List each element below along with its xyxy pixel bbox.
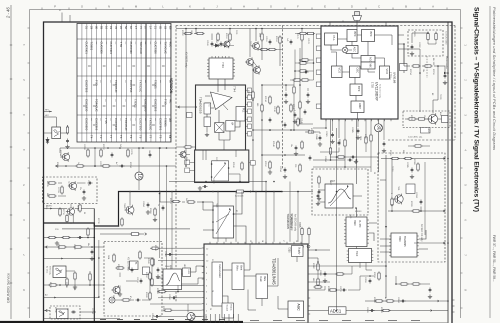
ground r2806 — [318, 272, 327, 283]
module wiring — [205, 79, 240, 150]
svg-text:C2510: C2510 — [168, 294, 170, 300]
svg-text:R2716: R2716 — [62, 209, 64, 215]
resistor R2508 — [157, 290, 166, 292]
svg-text:R2301: R2301 — [389, 150, 391, 156]
tuner type label 1701 UV9168 — [389, 72, 397, 83]
label bandwidth — [100, 233, 147, 236]
svg-text:for CUC: for CUC — [46, 266, 48, 274]
wire tuner IF down — [356, 119, 358, 184]
svg-text:—: — — [124, 42, 128, 45]
wire mid vertical 2 — [261, 85, 263, 192]
resistor R2722 — [100, 148, 102, 157]
svg-text:—: — — [158, 42, 162, 45]
transistor T2752 — [66, 207, 75, 217]
transistor T2173 — [179, 150, 187, 158]
wire AGC row — [405, 118, 442, 120]
label filter — [330, 181, 362, 213]
svg-text:AMP: AMP — [358, 103, 362, 109]
svg-text:C2123: C2123 — [307, 38, 309, 44]
wire under tuner v2 — [382, 119, 386, 153]
label 7230 — [288, 247, 291, 253]
svg-text:R2620: R2620 — [145, 292, 147, 298]
svg-text:R2416: R2416 — [149, 208, 151, 214]
resistor R2828 — [381, 309, 390, 311]
resistor R2605 — [139, 250, 141, 259]
svg-text:T2220: T2220 — [439, 94, 441, 99]
svg-text:18k: 18k — [422, 69, 424, 72]
wire pin drop b — [225, 238, 227, 242]
svg-text:CUC7350: CUC7350 — [154, 42, 158, 55]
resistor R2616 — [121, 299, 130, 301]
svg-text:CH: CH — [169, 26, 172, 30]
dashed boundary tuner section — [176, 26, 455, 303]
capacitor C2136 — [269, 117, 272, 122]
svg-text:82: 82 — [235, 210, 237, 212]
svg-text:G: G — [270, 5, 272, 9]
svg-text:CUC: CUC — [169, 42, 172, 47]
svg-text:T2310: T2310 — [391, 166, 393, 171]
svg-text:C2305: C2305 — [406, 162, 408, 168]
resistor R2841 — [318, 175, 320, 184]
svg-text:34: 34 — [188, 314, 194, 320]
demodulator box — [212, 262, 223, 306]
resistor R2132 — [261, 103, 263, 112]
wire v 206 — [205, 150, 207, 160]
resistor R2754 — [47, 236, 56, 238]
capacitor C2146 — [304, 109, 307, 114]
module pin labels right — [246, 88, 252, 136]
svg-text:2121: 2121 — [215, 157, 217, 161]
wire bus386 top — [380, 179, 386, 181]
resistor R2148 — [277, 140, 279, 149]
svg-text:Video: Video — [236, 265, 238, 272]
capacitor C2706 — [66, 138, 69, 143]
svg-text:C2738: C2738 — [65, 282, 67, 288]
label for CUC only — [46, 266, 51, 275]
capacitor C2766 — [90, 246, 94, 261]
svg-text:R2742: R2742 — [54, 307, 56, 313]
tuner type label 1702 UV1216DXP — [371, 82, 382, 101]
sound switch box 7280 — [212, 206, 234, 238]
TDA8361 pins left — [202, 248, 209, 319]
wire saw feed 1 — [166, 244, 168, 269]
svg-text:37: 37 — [144, 26, 148, 29]
wire pin drop d — [273, 191, 275, 242]
resistor R2742 — [47, 182, 56, 184]
svg-text:220: 220 — [294, 164, 296, 167]
bus inline resistor — [235, 190, 252, 198]
wire to pin col 1 — [255, 191, 257, 244]
svg-text:CUC6300: CUC6300 — [99, 42, 103, 55]
svg-text:R2134: R2134 — [264, 96, 266, 102]
resistor R2430 — [301, 227, 303, 236]
svg-text:R2130: R2130 — [247, 90, 249, 96]
resistor R2410 — [171, 200, 180, 202]
wire ic right r6 — [310, 281, 330, 283]
svg-text:PLL: PLL — [332, 36, 336, 42]
socket 2615 — [109, 297, 115, 303]
svg-text:Signal-Chassis – TV-Signalelek: Signal-Chassis – TV-Signalelektronik / T… — [473, 7, 480, 212]
svg-text:16: 16 — [136, 173, 142, 179]
svg-text:—: — — [99, 80, 103, 83]
svg-text:56: 56 — [83, 212, 85, 214]
svg-text:4n7: 4n7 — [115, 162, 117, 165]
label TDA8395 for SECAM only — [290, 214, 297, 232]
film edge line left — [10, 5, 12, 319]
tuner BPF1 box — [347, 30, 357, 42]
IC 7744 prescaler — [207, 56, 235, 79]
TDA8361 pins top — [210, 242, 301, 244]
svg-text:R2736: R2736 — [49, 282, 51, 288]
capacitor C2826 — [369, 309, 374, 312]
svg-text:TXT/CUC: TXT/CUC — [163, 42, 167, 54]
capacitor C2810 — [341, 289, 346, 292]
svg-text:—: — — [144, 118, 148, 121]
svg-text:—: — — [144, 80, 148, 83]
svg-text:19: 19 — [109, 26, 113, 29]
svg-text:680: 680 — [46, 193, 48, 196]
svg-text:C2222: C2222 — [99, 161, 101, 167]
svg-text:TOP/CUC: TOP/CUC — [139, 42, 143, 55]
IF bus continuation — [281, 191, 313, 193]
svg-text:2836: 2836 — [359, 136, 361, 140]
resistor R2121 — [301, 29, 303, 42]
bottom cut marks — [100, 320, 420, 321]
resistor R2763 — [74, 271, 76, 280]
svg-text:T6: T6 — [119, 135, 123, 139]
svg-text:N: N — [108, 5, 110, 9]
wire row 297 — [44, 294, 99, 299]
svg-text:1n: 1n — [66, 308, 68, 310]
resistor R2142 — [290, 103, 292, 112]
wire h 146 — [313, 156, 345, 161]
resistor R2802 — [317, 262, 319, 271]
svg-text:BPF: BPF — [369, 32, 373, 37]
peak white box — [256, 274, 268, 299]
dashed SEC-DK region box — [378, 153, 445, 262]
tuner IF BPF box — [350, 84, 362, 96]
resistor R2412 — [186, 201, 195, 203]
version table — [77, 24, 172, 143]
page number 2-46 (rotated) — [6, 7, 11, 19]
svg-text:74: 74 — [139, 26, 143, 29]
resistor R2720 — [87, 148, 89, 157]
svg-text:CUC7303: CUC7303 — [153, 99, 157, 112]
capacitor C2522 — [157, 267, 160, 272]
resistor R2422 — [121, 217, 123, 226]
filter pins — [316, 190, 362, 206]
resistor R2144 — [297, 117, 299, 126]
capacitor C2510 — [171, 296, 176, 299]
svg-text:R2828: R2828 — [380, 307, 382, 313]
svg-text:10n: 10n — [290, 144, 292, 147]
label KV9570 mod — [127, 257, 129, 272]
resistor R2504 — [150, 247, 159, 249]
wire ic right r3 — [310, 286, 325, 290]
svg-text:65: 65 — [158, 26, 162, 29]
svg-text:CUC6300: CUC6300 — [84, 118, 88, 131]
svg-text:C2162: C2162 — [212, 178, 214, 184]
svg-text:R2224: R2224 — [129, 162, 131, 168]
svg-text:13: 13 — [249, 240, 251, 242]
svg-text:93: 93 — [99, 26, 103, 29]
wire pin drop c — [235, 191, 237, 242]
svg-text:T 55: T 55 — [119, 42, 123, 48]
box BM decoupling — [400, 64, 408, 71]
svg-text:—: — — [114, 99, 118, 102]
resistor R2604 — [113, 253, 115, 262]
resistor R2770 — [48, 284, 57, 286]
wire mid h1 — [253, 129, 310, 131]
antenna socket — [353, 12, 362, 27]
resistor R2301 — [390, 157, 399, 159]
svg-text:R2907: R2907 — [364, 134, 366, 140]
svg-text:150: 150 — [190, 30, 192, 33]
capacitor C2776 — [71, 311, 76, 314]
resistor R2903 — [344, 119, 346, 148]
wires to 7650 — [380, 230, 428, 252]
svg-text:2616: 2616 — [112, 295, 114, 299]
wire pin drop e — [289, 182, 291, 242]
capacitor C2150 — [295, 145, 298, 150]
svg-text:470: 470 — [59, 155, 61, 158]
right col row d — [295, 70, 314, 72]
resistor R2744 — [47, 195, 56, 197]
svg-text:tuner AGC adj.: tuner AGC adj. — [408, 136, 423, 139]
svg-text:AGC: AGC — [427, 129, 430, 134]
svg-text:VCO: VCO — [385, 69, 389, 75]
wire ic right r2 — [310, 258, 318, 262]
svg-text:7230: 7230 — [288, 247, 291, 253]
svg-text:R2606: R2606 — [117, 264, 119, 270]
svg-text:VCO: VCO — [338, 68, 342, 74]
mixer X1 — [215, 123, 224, 133]
wire mid h3 — [261, 84, 294, 86]
capacitor C2612 — [140, 278, 143, 283]
svg-text:OSC: OSC — [356, 68, 360, 74]
svg-text:T3: T3 — [129, 135, 133, 139]
svg-text:R2201: R2201 — [413, 31, 415, 37]
capacitor C2736 — [119, 165, 124, 168]
resistor R2105 — [217, 32, 219, 41]
dashed small box bl — [50, 306, 80, 319]
wire tuning — [404, 44, 445, 67]
dashed SECAM filter box — [312, 169, 368, 215]
bus junction dots — [447, 72, 449, 302]
resistor R2705 — [66, 125, 68, 134]
module lower pin labels — [185, 160, 255, 173]
tuner AGC2 box — [361, 56, 375, 63]
svg-text:UV9168: UV9168 — [393, 72, 397, 83]
svg-text:T4: T4 — [89, 135, 93, 139]
svg-text:21: 21 — [154, 26, 158, 29]
svg-text:K3953: K3953 — [355, 211, 362, 213]
label 7205 — [298, 222, 301, 228]
IC 7410 decoder — [347, 249, 374, 263]
svg-text:22n: 22n — [79, 187, 81, 190]
module lower wires — [195, 150, 240, 183]
wire row 285 — [44, 284, 105, 286]
wire row 247 — [44, 246, 105, 249]
wire pin drop f — [297, 191, 299, 242]
svg-text:AGC: AGC — [297, 304, 301, 312]
svg-text:UFO: UFO — [183, 264, 185, 269]
resistor R2524 — [151, 277, 153, 286]
svg-text:TDA6802N5: TDA6802N5 — [286, 214, 290, 230]
wire row 237 — [44, 237, 96, 239]
svg-text:C2414: C2414 — [142, 201, 144, 207]
svg-text:CUC6330: CUC6330 — [84, 99, 88, 112]
wire r290 — [325, 289, 360, 291]
svg-text:E: E — [324, 5, 326, 9]
svg-text:—: — — [153, 118, 157, 121]
resistor R2233 — [417, 118, 426, 120]
option label — [445, 31, 448, 69]
wire top feed — [176, 28, 321, 30]
svg-text:R2306: R2306 — [413, 159, 415, 165]
resistor R2620 — [149, 291, 151, 300]
svg-text:C2810: C2810 — [339, 286, 341, 292]
svg-text:R2705: R2705 — [46, 181, 48, 187]
svg-text:R2231: R2231 — [410, 115, 412, 121]
capacitor C2202 — [410, 44, 414, 55]
svg-text:TXT/CUC: TXT/CUC — [139, 80, 143, 92]
svg-text:19: 19 — [295, 240, 297, 242]
svg-text:560: 560 — [402, 150, 404, 153]
svg-text:29: 29 — [89, 26, 93, 29]
bottom scan bar — [0, 321, 448, 323]
wires sound — [360, 275, 374, 290]
svg-text:C2834: C2834 — [324, 156, 326, 162]
diode D2111 — [214, 44, 220, 47]
resistor R2830 — [329, 146, 331, 155]
wires decoder — [357, 247, 373, 271]
svg-text:T/5301: T/5301 — [134, 99, 138, 108]
svg-text:—: — — [158, 80, 162, 83]
svg-text:KV: KV — [169, 135, 172, 139]
svg-text:6360 only: 6360 only — [48, 266, 50, 275]
svg-text:R2118: R2118 — [275, 36, 277, 41]
svg-text:C2154: C2154 — [279, 166, 281, 172]
film strip marks — [10, 45, 12, 283]
resistor R2765 — [89, 272, 91, 281]
capacitor C2824 — [400, 300, 405, 303]
wire below module — [176, 147, 196, 155]
resistor R2831 — [335, 273, 344, 275]
svg-text:C2732: C2732 — [73, 244, 75, 250]
svg-text:2119: 2119 — [185, 157, 187, 161]
wire mid h2 — [262, 154, 305, 156]
svg-text:R2110: R2110 — [225, 33, 227, 38]
page title (rotated) — [473, 7, 480, 212]
IC bottom pin stubs — [206, 314, 238, 323]
svg-text:B: B — [405, 5, 407, 9]
wire tuner pin a — [330, 119, 332, 146]
svg-text:C2901: C2901 — [325, 131, 327, 137]
audio matrix 2775 — [57, 309, 69, 319]
svg-text:R2121: R2121 — [296, 33, 298, 39]
version table caption — [169, 78, 173, 94]
svg-text:C2506: C2506 — [164, 251, 166, 257]
resistor R2201 — [427, 32, 429, 41]
capacitor C2119 — [290, 39, 293, 44]
wire hf in 2 — [44, 117, 57, 127]
capacitor C2816 — [369, 278, 372, 283]
svg-text:—: — — [134, 42, 138, 45]
svg-text:D: D — [351, 5, 353, 9]
svg-text:C2744: C2744 — [91, 308, 93, 314]
diode D2113 — [213, 44, 234, 47]
tuner bottom pin ticks — [326, 119, 391, 121]
wire y132 — [305, 132, 322, 146]
svg-text:Peak/: Peak/ — [259, 276, 261, 282]
ground mid — [268, 152, 298, 179]
svg-text:T2712: T2712 — [67, 181, 69, 186]
svg-text:—: — — [104, 99, 108, 102]
video in wire — [44, 206, 95, 224]
resistor R2322 — [391, 197, 393, 211]
svg-text:7410: 7410 — [355, 251, 357, 257]
svg-text:Supply: Supply — [298, 247, 301, 255]
svg-text:CUC7301: CUC7301 — [85, 42, 89, 55]
svg-text:C2116: C2116 — [265, 36, 267, 41]
ground if cluster — [146, 210, 157, 222]
wire video out row — [352, 309, 433, 311]
IC 7230 TDA8361 block — [204, 244, 308, 323]
wire row157 — [330, 156, 378, 159]
wire 33V rail — [398, 44, 404, 73]
svg-text:78: 78 — [114, 26, 118, 29]
transistor T2220 — [427, 66, 438, 125]
capacitor C2161 — [306, 88, 310, 104]
tuner MIX box — [361, 62, 375, 69]
wire agc2 row — [388, 159, 432, 212]
svg-text:—: — — [124, 80, 128, 83]
wire under tuner h — [313, 148, 371, 168]
wire saw feed 2 — [171, 191, 173, 269]
svg-text:CUC7303: CUC7303 — [84, 80, 88, 93]
svg-text:56: 56 — [124, 26, 128, 29]
svg-text:T 55: T 55 — [163, 99, 167, 105]
ADC1 label box — [329, 307, 347, 314]
node 30 — [375, 119, 383, 172]
wire y287 — [312, 286, 314, 288]
wire rb — [395, 276, 432, 299]
svg-text:26: 26 — [209, 308, 211, 310]
svg-text:30: 30 — [376, 125, 382, 131]
svg-text:C2215: C2215 — [130, 149, 132, 155]
svg-text:680: 680 — [256, 103, 258, 106]
resistor R2104 — [194, 29, 205, 35]
resistor R2138 — [277, 105, 279, 114]
resistor R2812 — [313, 286, 322, 288]
svg-text:CUC7350: CUC7350 — [139, 118, 143, 131]
svg-text:T2121: T2121 — [249, 41, 251, 46]
svg-text:CUC7303: CUC7303 — [109, 42, 113, 55]
svg-text:R2512: R2512 — [162, 306, 164, 312]
AFC switch box — [211, 161, 230, 181]
capacitor C2165 — [309, 155, 312, 160]
svg-text:R2508: R2508 — [156, 288, 158, 294]
osc box B — [204, 117, 211, 127]
capacitor C2724 — [111, 152, 114, 157]
bottom cut wires — [44, 318, 121, 320]
wire mid vertical 1 — [252, 60, 254, 192]
svg-text:PLL: PLL — [242, 108, 245, 113]
svg-text:4n7: 4n7 — [280, 121, 282, 124]
capacitor C2905 — [356, 119, 360, 140]
svg-text:T 55: T 55 — [104, 118, 108, 124]
